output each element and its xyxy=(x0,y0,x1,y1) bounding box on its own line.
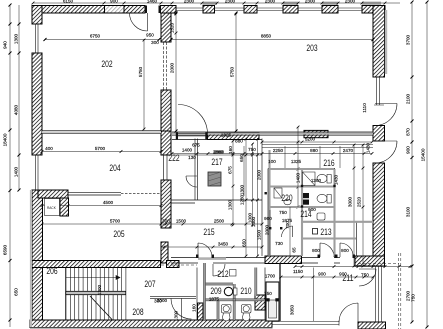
svg-text:15400: 15400 xyxy=(421,148,426,161)
svg-text:1300: 1300 xyxy=(311,178,322,183)
svg-text:6150: 6150 xyxy=(63,0,74,4)
svg-text:5750: 5750 xyxy=(138,66,143,77)
svg-text:5750: 5750 xyxy=(230,66,235,77)
svg-text:4080: 4080 xyxy=(14,104,19,115)
svg-text:1300: 1300 xyxy=(228,199,233,210)
svg-text:2000: 2000 xyxy=(257,169,262,180)
svg-text:215: 215 xyxy=(203,227,214,237)
svg-text:1520: 1520 xyxy=(170,22,175,33)
svg-text:8850: 8850 xyxy=(261,34,272,39)
svg-text:208: 208 xyxy=(132,307,143,317)
svg-text:870: 870 xyxy=(406,128,411,136)
svg-text:203: 203 xyxy=(306,43,317,53)
svg-text:205: 205 xyxy=(113,229,124,239)
svg-text:1430: 1430 xyxy=(366,142,371,153)
svg-text:1325: 1325 xyxy=(291,159,302,164)
svg-text:2300: 2300 xyxy=(184,0,195,4)
svg-text:1400: 1400 xyxy=(14,166,19,177)
svg-text:3050: 3050 xyxy=(290,304,295,315)
svg-text:160: 160 xyxy=(192,304,197,312)
svg-text:3000: 3000 xyxy=(348,196,353,207)
svg-text:206: 206 xyxy=(46,266,57,276)
svg-text:2300: 2300 xyxy=(225,0,236,4)
svg-text:300: 300 xyxy=(154,299,162,304)
svg-text:212: 212 xyxy=(217,269,228,279)
svg-text:2880: 2880 xyxy=(213,150,224,155)
svg-text:6750: 6750 xyxy=(90,34,101,39)
svg-text:1430: 1430 xyxy=(334,174,339,185)
svg-text:1500: 1500 xyxy=(257,229,262,240)
svg-text:2300: 2300 xyxy=(345,0,356,4)
svg-text:5700: 5700 xyxy=(95,146,106,151)
svg-text:900: 900 xyxy=(318,272,326,277)
svg-text:2470: 2470 xyxy=(343,148,354,153)
svg-text:2000: 2000 xyxy=(170,62,175,73)
svg-text:1150: 1150 xyxy=(293,269,303,274)
svg-text:217: 217 xyxy=(211,157,222,167)
svg-text:210: 210 xyxy=(240,286,251,296)
svg-text:900: 900 xyxy=(264,216,272,221)
svg-text:880: 880 xyxy=(235,139,243,144)
svg-text:222: 222 xyxy=(168,153,179,163)
svg-text:800: 800 xyxy=(312,248,320,253)
svg-text:2300: 2300 xyxy=(265,0,276,4)
svg-text:1300: 1300 xyxy=(97,284,102,295)
svg-text:65: 65 xyxy=(292,247,297,253)
svg-text:6590: 6590 xyxy=(3,244,8,255)
svg-text:1700: 1700 xyxy=(265,274,276,279)
svg-text:880: 880 xyxy=(310,148,318,153)
svg-text:18400: 18400 xyxy=(3,133,8,146)
svg-text:1500: 1500 xyxy=(176,219,187,224)
svg-text:950: 950 xyxy=(146,33,154,38)
svg-text:5200: 5200 xyxy=(305,137,316,142)
svg-text:1300: 1300 xyxy=(174,310,179,321)
svg-text:160: 160 xyxy=(228,146,233,154)
svg-text:650: 650 xyxy=(242,239,247,247)
svg-text:300: 300 xyxy=(162,219,170,224)
svg-text:2520: 2520 xyxy=(357,196,362,207)
svg-text:220: 220 xyxy=(281,193,292,203)
svg-text:650: 650 xyxy=(239,154,244,162)
svg-text:2500: 2500 xyxy=(214,219,225,224)
svg-text:3700: 3700 xyxy=(406,34,411,45)
svg-text:4500: 4500 xyxy=(103,200,114,205)
svg-text:675: 675 xyxy=(192,143,200,148)
svg-text:100: 100 xyxy=(268,159,276,164)
svg-text:650: 650 xyxy=(14,288,19,296)
svg-text:400: 400 xyxy=(45,146,53,151)
svg-text:730: 730 xyxy=(275,241,283,246)
svg-text:900: 900 xyxy=(406,146,411,154)
svg-text:2000: 2000 xyxy=(265,224,270,235)
svg-text:3450: 3450 xyxy=(218,242,229,247)
svg-text:700: 700 xyxy=(285,221,290,229)
svg-text:940: 940 xyxy=(3,41,8,49)
svg-text:1000: 1000 xyxy=(248,212,253,223)
svg-text:900: 900 xyxy=(110,0,118,4)
svg-text:800: 800 xyxy=(341,248,349,253)
svg-text:1400: 1400 xyxy=(182,148,193,153)
svg-text:750: 750 xyxy=(279,210,287,215)
svg-text:1825: 1825 xyxy=(221,133,232,138)
svg-text:1300: 1300 xyxy=(14,33,19,44)
svg-text:2250: 2250 xyxy=(273,148,284,153)
svg-text:216: 216 xyxy=(323,158,334,168)
svg-text:209: 209 xyxy=(210,286,221,296)
svg-text:3100: 3100 xyxy=(406,206,411,217)
svg-text:750: 750 xyxy=(361,273,369,278)
svg-text:RACK: RACK xyxy=(47,206,57,210)
svg-text:900: 900 xyxy=(308,207,316,212)
svg-text:207: 207 xyxy=(144,279,155,289)
svg-text:204: 204 xyxy=(109,163,120,173)
svg-text:2300: 2300 xyxy=(305,0,316,4)
svg-text:130: 130 xyxy=(188,155,196,160)
svg-text:5700: 5700 xyxy=(110,219,121,224)
svg-text:750: 750 xyxy=(264,291,272,296)
svg-text:213: 213 xyxy=(320,227,331,237)
svg-text:1110: 1110 xyxy=(362,103,367,113)
svg-text:675: 675 xyxy=(228,166,233,174)
svg-text:2100: 2100 xyxy=(406,93,411,104)
svg-text:202: 202 xyxy=(101,59,112,69)
svg-text:900: 900 xyxy=(339,272,347,277)
svg-text:750: 750 xyxy=(411,294,416,302)
svg-text:300: 300 xyxy=(151,40,159,45)
svg-text:1875: 1875 xyxy=(209,297,220,302)
svg-text:750: 750 xyxy=(248,147,256,152)
svg-text:1460: 1460 xyxy=(147,0,158,4)
